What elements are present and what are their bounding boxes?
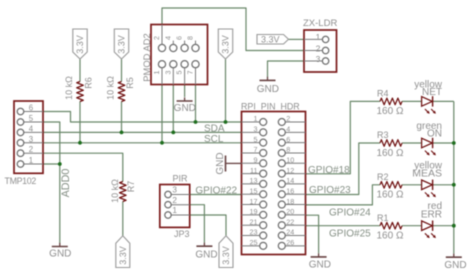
junction rail-R1 [452, 224, 456, 228]
wire RPI pin20 to GND [306, 215, 319, 253]
net label ERR [421, 209, 442, 220]
wire net SCL TMP102 pin3 to RPI pin5 [43, 142, 242, 144]
svg-text:10 kΩ: 10 kΩ [110, 179, 120, 203]
svg-text:16: 16 [286, 186, 294, 195]
svg-text:3: 3 [316, 54, 321, 64]
ground GND (ADD0) [49, 243, 71, 260]
junction 3.3V-rail [224, 120, 228, 124]
svg-text:R6: R6 [83, 77, 93, 89]
svg-text:8: 8 [186, 36, 195, 40]
svg-text:5: 5 [175, 71, 184, 75]
connector JP3 box [160, 185, 190, 228]
label yellow (R2) [414, 160, 443, 171]
wire TMP102 pin1 / net ADD0 to GND [43, 164, 60, 243]
svg-text:ERR: ERR [421, 209, 442, 220]
label TMP102 [5, 176, 37, 186]
connector RPI PIN HDR pads [242, 119, 306, 250]
svg-text:6: 6 [175, 36, 184, 40]
pin numbers RPI PIN HDR [250, 114, 295, 247]
svg-text:9: 9 [254, 155, 258, 164]
wire net GPIO#18 RPI pin12 to R4 [306, 101, 381, 173]
junction PMOD3-SDA [171, 131, 175, 135]
wire R7 bottom to 3.3V [122, 202, 124, 236]
svg-text:3.3V: 3.3V [75, 35, 85, 54]
wire PIR pin3 / net GPIO#22 to RPI pin15 [190, 194, 242, 196]
svg-text:2: 2 [29, 145, 33, 154]
wire net GPIO#25 RPI pin22 to R1 [306, 225, 381, 227]
LED R4 row (yellow NET) [422, 96, 436, 114]
supply 3.3V (R7) [116, 236, 130, 268]
ground GND (PMOD pin5) [174, 97, 196, 113]
supply 3.3V (ZX-LDR) [257, 35, 289, 45]
label red (R1) [428, 201, 442, 212]
svg-text:6: 6 [29, 104, 33, 113]
svg-text:GPIO#22: GPIO#22 [195, 186, 237, 197]
svg-text:10 kΩ: 10 kΩ [64, 76, 74, 100]
svg-text:R5: R5 [125, 77, 135, 89]
svg-text:8: 8 [286, 145, 290, 154]
svg-text:160 Ω: 160 Ω [377, 190, 404, 201]
wire PMOD pin2 to ZX-LDR pin2 [162, 8, 304, 51]
wire LED cathode to GND rail (R2 row) [433, 184, 454, 186]
svg-text:4: 4 [163, 36, 172, 40]
resistor R3 [380, 140, 402, 147]
resistor R7 [120, 182, 127, 202]
node ADD0 label [60, 169, 72, 198]
svg-text:4: 4 [286, 125, 290, 134]
svg-text:7: 7 [186, 71, 195, 75]
junction ADD0 [58, 162, 62, 166]
LED R3 row (green ON) [422, 138, 436, 156]
label R1 [377, 213, 389, 223]
svg-text:2: 2 [316, 43, 321, 53]
wire TMP102 pin5 to ADD0 vertical [43, 122, 60, 164]
resistor R2 [380, 182, 402, 189]
svg-text:26: 26 [286, 238, 294, 247]
svg-text:NET: NET [422, 87, 442, 98]
wire GND rail right [453, 101, 455, 253]
svg-text:JP3: JP3 [174, 229, 190, 239]
wire net GPIO#23 RPI pin16 to R3 [306, 143, 381, 195]
wire R3 to LED anode [402, 142, 422, 144]
svg-text:3.3V: 3.3V [117, 35, 127, 54]
svg-text:RPI PIN HDR: RPI PIN HDR [241, 101, 300, 111]
svg-text:R4: R4 [377, 89, 389, 99]
label R6 [83, 77, 93, 89]
junction rail-R2 [452, 183, 456, 187]
svg-text:10 kΩ: 10 kΩ [105, 76, 115, 100]
svg-text:3: 3 [163, 71, 172, 75]
svg-text:1: 1 [316, 32, 321, 42]
svg-text:17: 17 [250, 197, 258, 206]
svg-text:ADD0: ADD0 [60, 169, 72, 198]
wire LED cathode to GND rail (R1 row) [433, 225, 454, 227]
wire R6 top to 3.3V [79, 59, 81, 82]
svg-text:GPIO#25: GPIO#25 [329, 228, 371, 239]
wire PIR pin2 to GND [190, 205, 205, 243]
wire PMOD pin1 to SCL [161, 85, 163, 143]
svg-text:GND: GND [174, 103, 196, 114]
svg-text:1: 1 [254, 114, 258, 123]
svg-text:PMOD AD2: PMOD AD2 [141, 33, 152, 81]
svg-text:19: 19 [250, 207, 258, 216]
net label GPIO#24 [329, 208, 371, 219]
svg-text:2: 2 [152, 36, 161, 40]
value 160 &#937; (R2) [377, 190, 404, 201]
pin numbers TMP102 [29, 104, 34, 166]
junction PMOD7-rail [194, 120, 198, 124]
label yellow (R4) [414, 79, 443, 90]
junction PMOD1-SCL [160, 141, 164, 145]
wire PMOD pin5 to GND [184, 85, 186, 98]
svg-text:GND: GND [257, 84, 279, 95]
net label ON [427, 129, 442, 140]
svg-text:GND: GND [309, 260, 331, 271]
label PIR [173, 173, 189, 183]
label green (R3) [416, 121, 442, 132]
connector PMOD AD2 pads [158, 25, 199, 85]
svg-text:GND: GND [195, 250, 217, 261]
svg-text:11: 11 [250, 166, 257, 175]
label RPI PIN HDR [241, 101, 300, 111]
wire R1 to LED anode [402, 225, 422, 227]
supply 3.3V (PIR pin1) [219, 236, 233, 268]
LED R2 row (yellow MEAS) [422, 180, 436, 198]
svg-text:MEAS: MEAS [412, 168, 442, 180]
svg-text:3.3V: 3.3V [221, 35, 231, 54]
svg-text:160 Ω: 160 Ω [377, 148, 404, 159]
label R5 [125, 77, 135, 89]
svg-text:GND: GND [215, 152, 226, 174]
svg-text:1: 1 [172, 206, 177, 215]
connector ZX-LDR pads [304, 36, 329, 64]
net label GPIO#18 [308, 165, 350, 176]
junction rail-R3 [452, 141, 456, 145]
connector RPI PIN HDR box [242, 112, 306, 255]
svg-text:20: 20 [286, 207, 294, 216]
svg-text:TMP102: TMP102 [5, 176, 37, 186]
value 10 k&#937; (R7) [110, 179, 120, 203]
wire PMOD pin7 to 3.3V rail [195, 85, 197, 123]
svg-text:21: 21 [250, 217, 258, 226]
wire R5 top to 3.3V [121, 59, 123, 82]
wire TMP102 pin6 to 3.3V rail (jog) [43, 112, 242, 123]
svg-text:1: 1 [29, 156, 33, 165]
svg-text:R2: R2 [377, 172, 389, 182]
LED R1 row (red ERR) [422, 221, 436, 239]
svg-text:SCL: SCL [204, 134, 224, 145]
svg-text:GND: GND [444, 260, 466, 271]
ground GND (RPI pin20) [309, 253, 331, 270]
resistor R1 [380, 222, 402, 229]
resistor R6 [77, 82, 84, 102]
svg-text:13: 13 [250, 176, 258, 185]
wire R5 bottom to SDA [121, 102, 123, 133]
svg-text:3.3V: 3.3V [221, 246, 231, 265]
svg-text:2: 2 [172, 196, 177, 205]
svg-text:24: 24 [286, 228, 294, 237]
net label GPIO#22 [195, 186, 237, 197]
svg-text:15: 15 [250, 186, 258, 195]
svg-text:3.3V: 3.3V [118, 246, 128, 265]
wire 3.3V supply to rail [225, 59, 227, 122]
svg-text:GPIO#18: GPIO#18 [308, 165, 350, 176]
svg-text:3: 3 [29, 135, 33, 144]
junction R5-SDA [120, 131, 124, 135]
svg-text:1: 1 [152, 71, 161, 75]
wire net GPIO#24 RPI pin18 to R2 [306, 185, 381, 205]
wire R6 bottom to SCL [79, 102, 81, 143]
label R4 [377, 89, 389, 99]
svg-text:22: 22 [286, 217, 294, 226]
label R7 [126, 181, 136, 193]
connector JP3 pads [165, 191, 190, 218]
label PMOD AD2 [141, 33, 152, 81]
net label GPIO#23 [309, 185, 351, 196]
wire TMP102 pin2 to R7 [43, 153, 123, 181]
label R3 [377, 130, 389, 140]
supply 3.3V (rail) [218, 29, 232, 59]
wire ZX-LDR pin3 to GND [268, 61, 305, 77]
value 10 k&#937; (R6) [64, 76, 74, 100]
svg-text:10: 10 [286, 155, 294, 164]
resistor R4 [380, 98, 402, 105]
wire net SDA TMP102 pin4 to RPI pin3 [43, 131, 242, 133]
value 160 &#937; (R3) [377, 148, 404, 159]
svg-text:5: 5 [29, 114, 34, 123]
value 10 k&#937; (R5) [105, 76, 115, 100]
wire R2 to LED anode [402, 184, 422, 186]
svg-text:PIR: PIR [173, 173, 189, 183]
svg-text:R1: R1 [377, 213, 389, 223]
net label NET [422, 87, 442, 98]
supply 3.3V (R6) [73, 29, 87, 59]
wire PIR pin1 to 3.3V [190, 215, 227, 236]
net label MEAS [412, 168, 442, 180]
ground GND (LED rail) [444, 254, 466, 271]
svg-text:4: 4 [29, 124, 34, 133]
pin numbers PMOD AD2 [152, 36, 195, 75]
net label GPIO#25 [329, 228, 371, 239]
wire LED cathode to GND rail (R3 row) [433, 142, 454, 144]
svg-text:2: 2 [286, 114, 290, 123]
label JP3 [174, 229, 190, 239]
svg-text:14: 14 [286, 176, 294, 185]
connector TMP102 pads [17, 108, 43, 167]
value 160 &#937; (R4) [377, 106, 404, 117]
connector TMP102 box [14, 101, 43, 173]
pin numbers JP3 [172, 186, 177, 216]
svg-text:3: 3 [254, 125, 258, 134]
svg-text:18: 18 [286, 197, 294, 206]
pin numbers ZX-LDR [316, 32, 321, 64]
svg-text:GPIO#24: GPIO#24 [329, 208, 371, 219]
label ZX-LDR [303, 18, 337, 29]
wire R4 to LED anode [402, 100, 422, 102]
svg-text:12: 12 [286, 166, 294, 175]
svg-text:23: 23 [250, 228, 258, 237]
svg-text:ZX-LDR: ZX-LDR [303, 18, 337, 29]
svg-text:5: 5 [254, 135, 258, 144]
connector ZX-LDR box [304, 30, 337, 72]
label R2 [377, 172, 389, 182]
ground GND (RPI pin9) [215, 152, 242, 174]
connector PMOD AD2 box [151, 25, 208, 85]
svg-text:160 Ω: 160 Ω [377, 231, 404, 242]
resistor R5 [118, 82, 125, 102]
svg-text:7: 7 [254, 145, 258, 154]
svg-text:ON: ON [427, 129, 442, 140]
wire PMOD pin3 to SDA [172, 85, 174, 133]
supply 3.3V (R5) [114, 29, 128, 59]
wire 3.3V to ZX-LDR pin1 [289, 38, 305, 40]
value 160 &#937; (R1) [377, 231, 404, 242]
net label SCL [204, 134, 224, 145]
wire LED cathode to GND rail (R4 row) [433, 100, 454, 102]
svg-text:25: 25 [250, 238, 258, 247]
svg-text:R7: R7 [126, 181, 136, 193]
svg-text:6: 6 [286, 135, 290, 144]
svg-text:GND: GND [49, 249, 71, 260]
svg-text:160 Ω: 160 Ω [377, 106, 404, 117]
net label SDA [204, 124, 225, 135]
ground GND (ZX-LDR) [257, 77, 279, 95]
junction R6-SCL [78, 141, 82, 145]
ground GND (PIR pin2) [195, 243, 217, 261]
svg-text:3: 3 [172, 186, 177, 195]
svg-text:3.3V: 3.3V [261, 35, 280, 45]
svg-text:GPIO#23: GPIO#23 [309, 185, 351, 196]
svg-text:R3: R3 [377, 130, 389, 140]
